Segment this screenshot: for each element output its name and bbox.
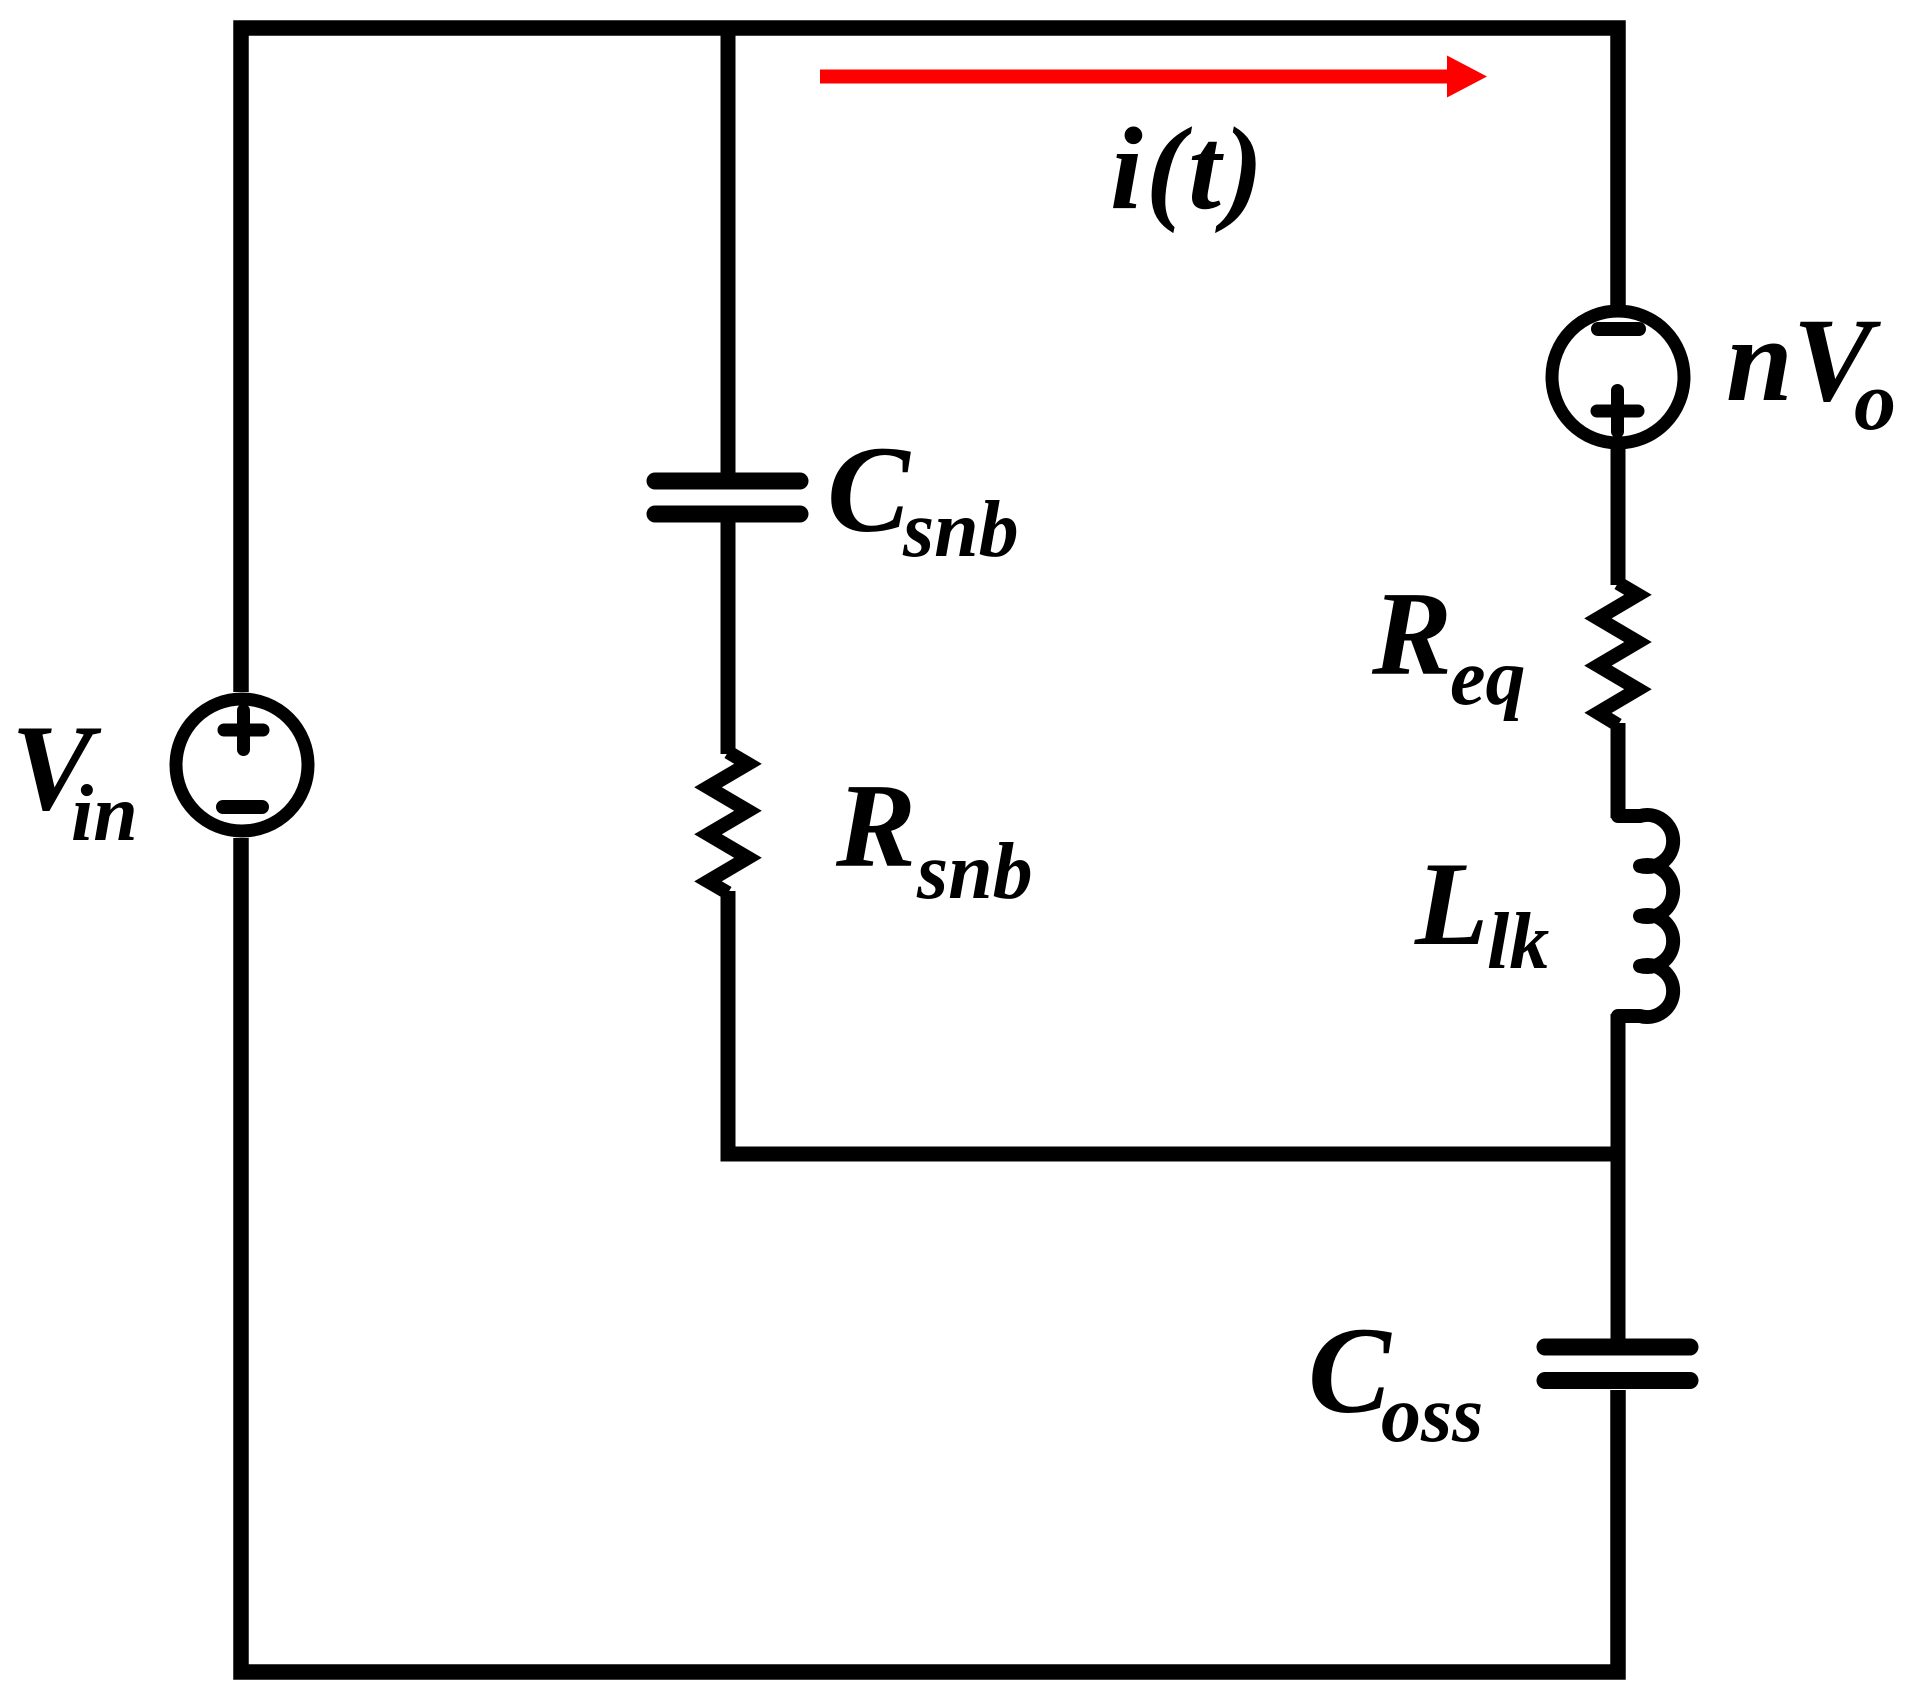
svg-text:C: C	[1308, 1302, 1392, 1439]
nVo minus terminal	[1598, 322, 1639, 336]
wire: Csnb to Rsnb	[721, 514, 736, 754]
junction node: mid horizontal wire at right rail	[1611, 1147, 1625, 1161]
svg-text:in: in	[71, 770, 138, 858]
svg-text:R: R	[1371, 567, 1452, 700]
inductor L_lk	[1618, 815, 1673, 1017]
svg-text:snb: snb	[916, 828, 1033, 916]
svg-text:lk: lk	[1487, 898, 1549, 986]
voltage source Vin circle	[176, 699, 308, 831]
wire: bottom bus (left rail lower + bottom rail + right rail lower, Vin to Coss)	[241, 838, 1618, 1672]
svg-text:C: C	[827, 421, 911, 558]
wire: Llk through mid node down to Coss	[1611, 1014, 1626, 1340]
wire: middle branch from top bus down to Csnb	[721, 28, 736, 478]
wire: Req to Llk	[1611, 723, 1626, 818]
svg-text:oss: oss	[1381, 1371, 1483, 1459]
svg-text:L: L	[1414, 837, 1488, 970]
voltage source nVo circle	[1552, 311, 1684, 443]
resistor R_snb	[708, 752, 748, 893]
wire: top bus (left rail upper + top rail + right rail upper, node A top-left to nVo)	[241, 28, 1618, 692]
wire: Rsnb down to mid node and horizontal to right rail	[728, 891, 1618, 1154]
Vin plus terminal	[224, 711, 263, 750]
svg-text:o: o	[1854, 355, 1896, 448]
wire: nVo to Req	[1611, 443, 1626, 585]
resistor R_eq	[1598, 583, 1638, 725]
svg-text:i(t): i(t)	[1110, 103, 1266, 234]
svg-text:R: R	[835, 759, 916, 892]
junction node: middle branch at mid horizontal wire	[721, 1147, 735, 1161]
Vin minus terminal	[223, 800, 262, 814]
current arrow i(t)	[820, 56, 1487, 98]
capacitor C_snb	[655, 481, 800, 514]
svg-text:eq: eq	[1450, 634, 1526, 722]
svg-text:snb: snb	[902, 486, 1019, 574]
nVo plus terminal	[1597, 391, 1638, 432]
junction node: middle branch at top rail	[721, 21, 735, 35]
capacitor C_oss	[1545, 1347, 1690, 1381]
